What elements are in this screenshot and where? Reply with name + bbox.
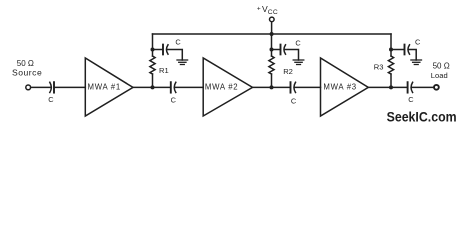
svg-text:R3: R3 xyxy=(374,62,384,71)
op-amp U2 MWA #2 xyxy=(203,58,252,116)
wire bypass 3 xyxy=(391,49,404,51)
svg-text:C: C xyxy=(48,95,54,104)
svg-text:MWA #1: MWA #1 xyxy=(88,83,121,92)
node source terminal xyxy=(26,85,31,90)
junction R3 output xyxy=(389,85,393,89)
junction R2 output xyxy=(270,85,274,89)
capacitor C input arc xyxy=(50,82,52,92)
ground G3 xyxy=(411,60,422,65)
capacitor C bypass2 plate xyxy=(280,45,282,55)
wire bypass 3 to ground xyxy=(409,50,416,61)
capacitor C bypass1 plate xyxy=(162,45,164,55)
capacitor C bypass2 arc xyxy=(284,45,286,54)
wire coupling2 to U3 xyxy=(295,86,321,88)
capacitor C coupling1 arc xyxy=(174,82,176,92)
capacitor C bypass1 arc xyxy=(166,45,168,54)
junction R1 output xyxy=(151,85,155,89)
wire column R3 lower xyxy=(390,74,392,87)
op-amp U1 MWA #1 xyxy=(85,58,133,116)
svg-text:C: C xyxy=(415,38,421,47)
wire coupling1 to U2 xyxy=(175,86,203,88)
svg-text:C: C xyxy=(175,38,181,47)
wire column R2 upper xyxy=(271,34,273,56)
wire U3 out xyxy=(368,86,391,88)
capacitor C input plate xyxy=(53,82,55,92)
svg-text:CC: CC xyxy=(268,9,278,16)
svg-text:50 Ω: 50 Ω xyxy=(433,61,450,70)
capacitor C coupling1 plate xyxy=(170,82,172,92)
wire coupling2 left xyxy=(272,86,290,88)
wire column R2 lower xyxy=(271,74,273,87)
svg-text:R2: R2 xyxy=(283,67,293,76)
junction VCC-rail xyxy=(270,32,274,36)
svg-text:C: C xyxy=(408,95,414,104)
capacitor C bypass3 arc xyxy=(408,45,410,54)
svg-text:C: C xyxy=(291,96,297,105)
svg-text:R1: R1 xyxy=(159,66,169,75)
wire U1 out xyxy=(133,86,153,88)
ground G1 xyxy=(177,60,188,65)
wire column R1 lower xyxy=(152,74,154,87)
capacitor C bypass3 plate xyxy=(404,45,406,55)
wire bypass 2 xyxy=(272,49,280,51)
junction R1 bypass xyxy=(151,48,155,52)
capacitor C coupling3 plate xyxy=(407,82,409,92)
wire column R3 upper xyxy=(390,34,392,56)
resistor R3 xyxy=(388,56,393,74)
svg-text:Source: Source xyxy=(12,68,42,78)
resistor R2 xyxy=(269,56,274,74)
wire bypass 1 to ground xyxy=(167,50,182,61)
wire U2 out xyxy=(253,86,272,88)
wire bypass 2 to ground xyxy=(285,50,299,61)
junction R2 bypass xyxy=(270,48,274,52)
ground G2 xyxy=(293,60,304,65)
wire bypass 1 xyxy=(153,49,163,51)
svg-text:SeekIC.com: SeekIC.com xyxy=(387,108,457,124)
svg-text:MWA #2: MWA #2 xyxy=(205,83,238,92)
capacitor C coupling3 arc xyxy=(411,82,413,92)
wire VCC rail xyxy=(153,33,392,35)
wire column R1 upper xyxy=(152,34,154,56)
svg-text:MWA #3: MWA #3 xyxy=(323,83,356,92)
capacitor C coupling2 plate xyxy=(290,82,292,92)
label +VCC xyxy=(257,4,278,16)
junction R3 bypass xyxy=(389,48,393,52)
wire coupling1 left xyxy=(153,86,171,88)
wire VCC stem xyxy=(271,22,273,34)
wire source to C xyxy=(31,86,50,88)
svg-text:Load: Load xyxy=(431,71,448,80)
wire coupling3 left xyxy=(391,86,407,88)
capacitor C coupling2 arc xyxy=(294,82,296,92)
wire C to U1 xyxy=(55,86,86,88)
wire coupling3 to load xyxy=(412,86,434,88)
node +VCC terminal xyxy=(270,17,275,22)
node load terminal xyxy=(434,85,439,90)
op-amp U3 MWA #3 xyxy=(321,58,369,116)
svg-text:+: + xyxy=(257,6,261,13)
svg-text:C: C xyxy=(295,39,301,48)
resistor R1 xyxy=(150,56,155,74)
svg-text:C: C xyxy=(171,96,177,105)
